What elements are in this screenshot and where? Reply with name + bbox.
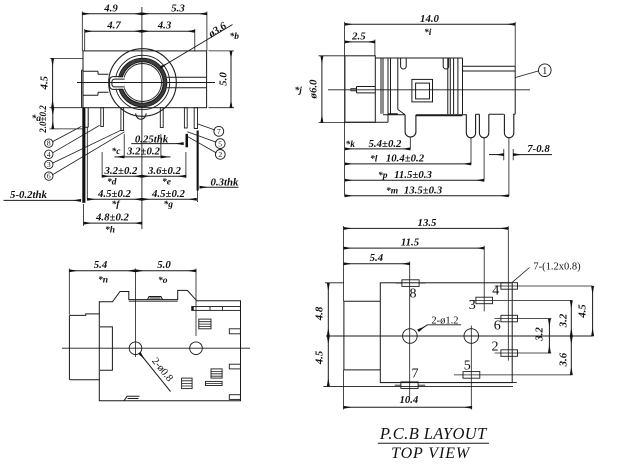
- pad bar top: [192, 307, 241, 311]
- svg-text:2.0±0.2: 2.0±0.2: [38, 105, 48, 134]
- balloon 1: [539, 64, 552, 77]
- svg-text:13.5: 13.5: [418, 217, 437, 229]
- pin 7 (front): [194, 108, 197, 129]
- dimension 3.2 outer (pcb): [570, 300, 572, 336]
- pad 4 (pcb): [501, 283, 518, 290]
- dimension 10.4 (pcb): [344, 406, 472, 408]
- svg-text:3: 3: [47, 160, 51, 169]
- svg-text:*b: *b: [230, 31, 240, 42]
- svg-text:0.25thk: 0.25thk: [135, 133, 169, 145]
- dimension 2.5: [374, 40, 376, 56]
- svg-text:5.4±0.2: 5.4±0.2: [369, 138, 403, 150]
- side view: horizontal centerline: [328, 89, 530, 91]
- side view pin 1: [405, 115, 416, 137]
- pad 3 (pcb): [476, 297, 493, 304]
- dimension 4.5±0.2 f and g: [87, 198, 142, 200]
- vertical line through pad3: [483, 246, 485, 311]
- barrel dark ring shading: [120, 60, 165, 105]
- dimension 4.7: [85, 30, 142, 32]
- svg-text:3.2: 3.2: [534, 327, 546, 342]
- svg-text:6: 6: [47, 172, 51, 181]
- svg-text:4.5: 4.5: [313, 350, 325, 365]
- side view bottom profile: [345, 109, 515, 122]
- svg-text:10.4±0.2: 10.4±0.2: [386, 153, 425, 165]
- svg-text:8: 8: [47, 139, 51, 148]
- pin 6 (front): [160, 108, 163, 128]
- ext line g-right: [197, 191, 199, 203]
- centerline through slot: [106, 82, 133, 84]
- svg-text:2-ø1.2: 2-ø1.2: [431, 315, 458, 326]
- svg-text:4.8±0.2: 4.8±0.2: [95, 212, 130, 224]
- dimension diameter 6.0: [319, 55, 346, 57]
- side view texts: [295, 13, 551, 197]
- side view body top edge: [375, 57, 462, 59]
- balloon 5: [215, 139, 225, 149]
- pin 8 dark flat pin: [82, 108, 85, 203]
- dimension 4.5 left (pcb): [327, 336, 329, 386]
- svg-text:4.7: 4.7: [106, 20, 121, 32]
- dimension 4.8±0.2 h: [83, 204, 85, 226]
- pin 3 (front): [121, 108, 124, 131]
- dimension 5.4 (bottom view): [68, 269, 70, 315]
- mounting hole 1 (pcb): [403, 329, 418, 344]
- svg-text:4: 4: [492, 284, 499, 299]
- side view pin 2: [466, 114, 475, 138]
- pcb layout left block: [344, 301, 380, 370]
- side view body internal verticals right: [448, 58, 463, 114]
- right tab pad 1: [229, 329, 240, 334]
- svg-text:7: 7: [217, 127, 221, 136]
- dimension 13.5 (pcb): [344, 227, 509, 229]
- balloon 6: [45, 172, 53, 180]
- bottom view left block: [69, 314, 99, 380]
- side view top slot left: [401, 58, 407, 69]
- svg-text:*j: *j: [295, 85, 303, 96]
- svg-text:5: 5: [464, 358, 471, 373]
- pcb layout texts: [313, 217, 588, 406]
- svg-text:*o: *o: [158, 275, 168, 286]
- svg-text:14.0: 14.0: [420, 13, 439, 25]
- mounting hole right: [190, 342, 203, 355]
- dimension p 11.5±0.3: [345, 179, 485, 181]
- side view pin 3: [479, 114, 488, 138]
- dimension k 5.4±0.2: [345, 148, 411, 150]
- right tab pad 2: [229, 364, 240, 369]
- leader 7-(1.2x0.8): [512, 268, 529, 283]
- pin 4 (front): [101, 108, 104, 127]
- svg-text:13.5±0.3: 13.5±0.3: [404, 184, 443, 196]
- pin 2 dark thickness bar: [186, 134, 189, 147]
- right contact lower line: [167, 87, 207, 89]
- dimension 4.5 left (front): [52, 58, 54, 107]
- dimension 3.2±0.2 c: [123, 134, 125, 158]
- left contact lower lines: [83, 92, 109, 95]
- key slot erase: [110, 77, 124, 88]
- leader diameter 3.6: [161, 25, 233, 68]
- pad 6 (pcb): [501, 315, 518, 322]
- pin 5 (front): [184, 108, 187, 128]
- pin extension lines: [410, 137, 509, 196]
- dimension m 13.5±0.3: [345, 195, 509, 197]
- svg-text:4.5±0.2: 4.5±0.2: [151, 188, 186, 200]
- dimension 14.0: [344, 22, 346, 196]
- svg-text:*c: *c: [112, 146, 122, 157]
- bottom view top small tab: [148, 297, 163, 300]
- dimension 4.5 (pcb): [592, 286, 594, 336]
- pad square B: [211, 369, 222, 378]
- left contact upper lines: [83, 71, 109, 74]
- balloon 4: [45, 150, 53, 158]
- svg-text:TOP VIEW: TOP VIEW: [391, 445, 471, 462]
- dimension 11.5 (pcb): [344, 247, 485, 249]
- svg-text:4.3: 4.3: [157, 20, 172, 32]
- svg-text:3.6±0.2: 3.6±0.2: [147, 165, 182, 177]
- svg-text:5.4: 5.4: [370, 252, 384, 264]
- bottom view texts: [94, 259, 175, 384]
- svg-text:5.3: 5.3: [171, 2, 185, 14]
- right tab pad 3: [229, 395, 240, 400]
- vertical line through pad8 hole1 pad7: [409, 262, 411, 397]
- leader 5-0.2thk: [4, 199, 81, 201]
- svg-text:*h: *h: [105, 225, 115, 236]
- dimension 5.0 (bottom view): [195, 269, 197, 337]
- svg-text:6: 6: [494, 319, 501, 334]
- front view: vertical centerline: [141, 7, 143, 229]
- svg-text:*g: *g: [164, 199, 174, 210]
- svg-text:5-0.2thk: 5-0.2thk: [10, 189, 47, 201]
- svg-text:5.4: 5.4: [94, 259, 108, 271]
- bottom view: horizontal centerline: [62, 347, 250, 349]
- pad 5 (pcb): [463, 372, 480, 379]
- key slot outer: [110, 77, 123, 90]
- leader 0.3thk: [200, 186, 239, 188]
- svg-text:0.3thk: 0.3thk: [211, 176, 240, 188]
- svg-text:*n: *n: [98, 275, 108, 286]
- barrel dark ring outer edge: [118, 58, 166, 106]
- pin 8 side edge: [85, 108, 88, 128]
- svg-text:*k: *k: [346, 139, 356, 150]
- barrel inner lip circle: [124, 64, 162, 102]
- side view right terminal block: [463, 66, 516, 114]
- svg-text:3: 3: [469, 298, 476, 313]
- svg-text:4: 4: [47, 150, 51, 159]
- dimension 0.25thk: [131, 143, 183, 145]
- svg-text:5.0: 5.0: [218, 72, 230, 86]
- dimension 3.2 inner (pcb): [548, 319, 550, 354]
- title underline: [378, 442, 489, 444]
- svg-text:4.5±0.2: 4.5±0.2: [97, 188, 132, 200]
- pcb layout bottom extra line: [323, 386, 513, 388]
- bottom view left notch: [100, 327, 112, 370]
- mounting hole 2 (pcb): [464, 329, 479, 344]
- vertical line through hole2 pad5: [470, 326, 472, 410]
- title P.C.B LAYOUT: [379, 424, 488, 462]
- front view body: [83, 51, 207, 108]
- pcb layout main outline: [380, 283, 512, 383]
- svg-text:*i: *i: [424, 27, 432, 38]
- svg-text:3.6: 3.6: [558, 352, 570, 367]
- dimension 5.4 (pcb): [344, 263, 410, 265]
- ext line for 4.5 left dim: [50, 57, 83, 59]
- collar outer circle: [109, 49, 177, 117]
- side view center square inner: [416, 83, 430, 99]
- side view center square outer: [412, 79, 433, 102]
- dimension 3.6 (pcb): [570, 336, 572, 375]
- dimension 2.0±0.2: [50, 107, 84, 109]
- svg-text:*f: *f: [112, 199, 121, 210]
- pad square A: [199, 319, 211, 329]
- body left protrusion edge: [81, 70, 83, 108]
- bottom view top edge double line: [129, 300, 178, 302]
- dimension 5.3: [142, 13, 207, 15]
- dimension 7-0.8: [504, 149, 513, 160]
- dimension 5.0 right: [209, 50, 235, 52]
- svg-text:7-(1.2x0.8): 7-(1.2x0.8): [533, 261, 581, 272]
- pad 7 (pcb): [401, 382, 418, 389]
- svg-text:*m: *m: [386, 185, 398, 196]
- svg-text:4.8: 4.8: [313, 306, 325, 321]
- side view barrel: [345, 56, 375, 123]
- dimension l 10.4±0.2: [345, 163, 471, 165]
- svg-text:*p: *p: [378, 170, 388, 181]
- label 2-diameter 1.2: [428, 324, 462, 326]
- svg-text:4.5: 4.5: [39, 75, 51, 90]
- svg-text:8: 8: [410, 287, 417, 302]
- dimension 3.2±0.2 d and 3.6±0.2 e: [101, 152, 103, 178]
- front view texts: [10, 2, 239, 235]
- svg-text:11.5±0.3: 11.5±0.3: [394, 169, 432, 181]
- dimension 4.8 left (pcb): [327, 283, 329, 336]
- svg-text:7-0.8: 7-0.8: [527, 143, 550, 155]
- pad square D: [182, 378, 193, 389]
- pcb top edge left extension: [325, 282, 344, 284]
- balloon 7: [214, 126, 224, 136]
- balloon 8: [45, 139, 53, 147]
- svg-text:1: 1: [542, 66, 547, 77]
- barrel dark ring inner edge: [122, 62, 164, 104]
- mounting hole left: [129, 342, 142, 355]
- left reference line: [343, 226, 345, 301]
- svg-text:11.5: 11.5: [401, 237, 420, 249]
- dimension 4.3: [142, 30, 195, 32]
- side view body internal verticals left: [381, 58, 398, 122]
- ext line f-left: [86, 127, 88, 199]
- svg-text:P.C.B LAYOUT: P.C.B LAYOUT: [379, 424, 488, 443]
- pad bar C: [206, 381, 223, 385]
- svg-text:ø6.0: ø6.0: [308, 79, 320, 99]
- svg-text:4.9: 4.9: [103, 2, 118, 14]
- key slot inner: [112, 79, 125, 87]
- bottom small tab: [124, 396, 140, 401]
- balloon 2: [215, 150, 225, 160]
- svg-text:2: 2: [218, 150, 222, 159]
- svg-text:*e: *e: [162, 176, 172, 187]
- bottom center pin bump: [136, 113, 146, 119]
- side view pin 4: [504, 114, 513, 137]
- svg-text:10.4: 10.4: [399, 394, 418, 406]
- pcb layout: horizontal centerline: [326, 335, 593, 337]
- svg-text:*d: *d: [107, 176, 117, 187]
- right contact upper line: [167, 76, 207, 78]
- svg-text:5: 5: [218, 139, 222, 148]
- svg-text:3.2±0.2: 3.2±0.2: [104, 165, 139, 177]
- pad 8 (pcb): [402, 280, 419, 287]
- svg-text:2.5: 2.5: [351, 30, 366, 42]
- side view top slot right: [443, 58, 449, 69]
- front view: horizontal centerline: [77, 82, 215, 84]
- balloon 3: [45, 160, 53, 168]
- dimension 4.9: [82, 13, 142, 15]
- side view barrel snout: [357, 87, 376, 93]
- leader 2-diameter 0.8: [140, 353, 171, 392]
- svg-text:7: 7: [412, 367, 419, 382]
- svg-text:*l: *l: [370, 154, 378, 165]
- svg-text:3.2±0.2: 3.2±0.2: [126, 145, 161, 157]
- pin 7 dark flat lower part: [197, 131, 199, 191]
- svg-text:5.0: 5.0: [157, 259, 171, 271]
- bottom view body outline: [99, 290, 240, 400]
- pad 2 (pcb): [501, 350, 518, 357]
- svg-text:3.2: 3.2: [558, 313, 570, 328]
- collar inner rim circle: [115, 55, 169, 109]
- svg-text:4.5: 4.5: [576, 304, 588, 319]
- svg-text:2: 2: [492, 340, 499, 355]
- vertical line through pads 4 6 2: [507, 226, 509, 360]
